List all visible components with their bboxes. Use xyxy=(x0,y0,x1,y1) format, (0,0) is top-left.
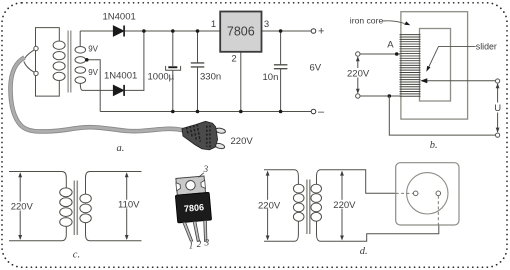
transformer d core xyxy=(307,180,310,235)
svg-text:2: 2 xyxy=(231,54,236,65)
junction dots top rail xyxy=(142,29,282,33)
iron core outer xyxy=(401,12,468,119)
diode D2 1N4001 xyxy=(113,85,124,96)
terminal circle primary bottom xyxy=(34,71,38,75)
leader iron core xyxy=(382,21,405,24)
capacitor C1 plus plate xyxy=(168,66,177,68)
wire c top left xyxy=(9,172,66,189)
mains cord highlight xyxy=(10,58,184,132)
svg-text:220V: 220V xyxy=(333,200,356,211)
svg-text:2: 2 xyxy=(197,239,202,249)
node A tap xyxy=(395,52,399,56)
svg-text:1N4001: 1N4001 xyxy=(104,71,137,82)
capacitor C1 bracket xyxy=(166,66,181,70)
terminal U top xyxy=(496,79,500,83)
svg-text:1000µ: 1000µ xyxy=(148,72,175,83)
transformer d secondary winding xyxy=(311,184,322,193)
package body xyxy=(175,192,211,223)
mains cord xyxy=(10,58,184,132)
svg-text:1: 1 xyxy=(189,240,194,250)
svg-text:220V: 220V xyxy=(258,201,281,212)
wire bottom rail xyxy=(100,111,311,113)
wire center tap to bottom rail xyxy=(87,60,100,112)
iron core inner window xyxy=(420,29,451,102)
svg-text:+: + xyxy=(318,26,324,38)
svg-text:A: A xyxy=(387,40,394,51)
wire regulator pin2 down xyxy=(240,52,242,112)
socket circle xyxy=(407,173,448,214)
svg-text:3: 3 xyxy=(204,238,210,248)
svg-text:slider: slider xyxy=(476,41,497,51)
diode D1 1N4001 xyxy=(113,26,124,37)
svg-text:10n: 10n xyxy=(263,72,279,83)
dashed wire to left pin xyxy=(396,192,414,194)
svg-text:6V: 6V xyxy=(310,62,322,73)
wire D2 cathode up to rail xyxy=(125,31,144,90)
terminal U bottom xyxy=(496,133,500,137)
svg-text:a.: a. xyxy=(117,143,125,154)
wire d bottom left xyxy=(264,221,298,241)
transformer T1 core xyxy=(68,31,71,93)
wire terminal curves to cord xyxy=(24,50,35,73)
terminal 220V bottom xyxy=(356,94,360,98)
junction dots bottom rail xyxy=(171,110,282,114)
dimension 220V d right xyxy=(341,172,343,239)
slider arrowhead xyxy=(420,78,427,83)
wire slider tap xyxy=(424,80,496,82)
dashed wire from right pin xyxy=(437,196,439,225)
socket pin right xyxy=(436,191,441,196)
svg-text:U: U xyxy=(494,103,501,114)
wire d top right to socket xyxy=(317,170,396,194)
capacitor C1 1000µ leads xyxy=(172,31,174,112)
package hole xyxy=(185,180,195,190)
svg-text:220V: 220V xyxy=(231,136,254,147)
wire secondary bottom to D2 xyxy=(80,83,113,90)
package legs xyxy=(183,222,193,242)
socket pin left xyxy=(413,191,418,196)
wire c bottom left xyxy=(9,226,66,241)
transformer c core xyxy=(74,181,77,236)
terminal + xyxy=(311,29,316,34)
node bottom junction xyxy=(388,94,392,98)
package tab xyxy=(176,176,206,195)
terminal - xyxy=(311,109,316,114)
dimension 220V c xyxy=(19,174,21,239)
capacitor C2 plates xyxy=(191,63,205,67)
svg-text:d.: d. xyxy=(360,246,368,257)
transformer T1 primary winding xyxy=(53,41,65,81)
capacitor C3 10n leads xyxy=(280,31,282,112)
wire top rail D1 to regulator xyxy=(125,30,220,32)
svg-text:110V: 110V xyxy=(118,199,140,210)
transformer c secondary winding xyxy=(80,194,91,203)
wire d top left xyxy=(264,170,298,185)
mains plug xyxy=(182,121,226,150)
dimension 110V c xyxy=(126,174,128,239)
transformer c primary winding xyxy=(60,188,72,197)
regulator U1 7806 xyxy=(220,12,261,52)
leader pin3 tab xyxy=(199,173,204,178)
terminal 220V top xyxy=(356,52,360,56)
svg-text:–: – xyxy=(318,106,325,118)
wire top rail regulator to + terminal xyxy=(262,30,312,32)
transformer d primary winding xyxy=(293,184,304,193)
socket outline xyxy=(396,163,459,225)
svg-text:220V: 220V xyxy=(11,202,34,213)
svg-text:iron core: iron core xyxy=(350,16,384,26)
wire c top right xyxy=(86,172,142,195)
transformer T1 primary enclosure xyxy=(36,28,60,97)
svg-text:7806: 7806 xyxy=(227,25,255,39)
svg-text:3: 3 xyxy=(264,19,269,30)
svg-text:220V: 220V xyxy=(347,68,370,79)
svg-text:b.: b. xyxy=(430,140,438,151)
transformer T1 secondary winding xyxy=(75,47,86,84)
svg-text:7806: 7806 xyxy=(184,202,205,214)
svg-text:c.: c. xyxy=(73,249,80,260)
terminal circle primary top xyxy=(34,46,38,50)
svg-text:3: 3 xyxy=(203,164,209,174)
capacitor C3 plates xyxy=(274,65,288,69)
capacitor C2 330n leads xyxy=(197,31,199,112)
dimension U xyxy=(496,83,500,132)
leader slider xyxy=(429,46,476,67)
wire bottom branch to U xyxy=(389,96,495,135)
svg-text:1N4001: 1N4001 xyxy=(103,11,136,22)
wire d bottom right to socket xyxy=(317,221,439,241)
wire 220V top xyxy=(360,53,400,55)
wire top rail left xyxy=(80,30,113,32)
wire secondary top to rail xyxy=(79,31,81,47)
svg-text:9V: 9V xyxy=(88,68,98,77)
svg-text:1: 1 xyxy=(211,19,216,30)
node center tap xyxy=(85,58,89,62)
dimension 220V b xyxy=(356,56,360,93)
svg-text:330n: 330n xyxy=(200,72,221,83)
wire c bottom right xyxy=(86,223,142,241)
wire 220V bottom xyxy=(360,95,400,97)
svg-text:9V: 9V xyxy=(88,44,98,53)
dimension 220V d left xyxy=(267,172,269,239)
autotransformer winding xyxy=(400,35,421,97)
